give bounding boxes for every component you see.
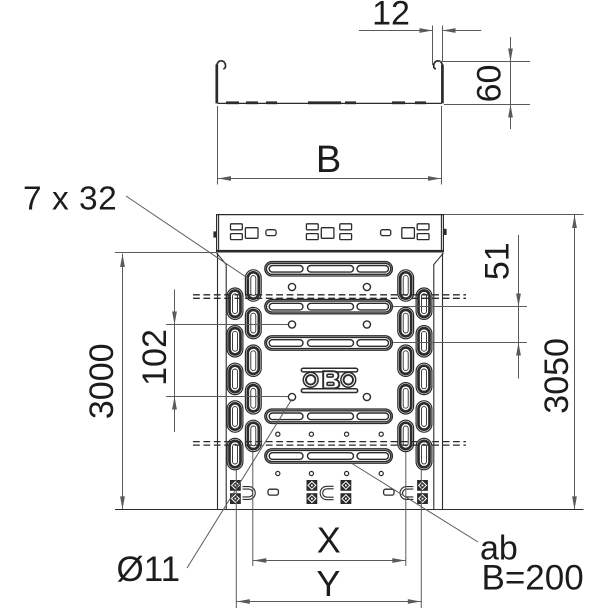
right flange inner slot 3 bbox=[398, 345, 414, 376]
dimension B left arrow bbox=[218, 176, 231, 181]
coupler strip left inner line bbox=[218, 215, 220, 253]
dimension 60 bottom arrow bbox=[508, 105, 513, 118]
coupler pair tabs at x=230 bbox=[231, 224, 243, 230]
svg-text:7 x 32: 7 x 32 bbox=[23, 181, 117, 218]
dimension 102 line bbox=[174, 290, 176, 433]
lower break dashed lines bbox=[193, 441, 466, 443]
Ø11 hole middle left bbox=[288, 321, 295, 328]
tray right outer edge bbox=[442, 253, 444, 510]
right flange outer slot 3 bbox=[416, 363, 432, 394]
dimension X left arrow bbox=[253, 558, 266, 563]
coupler square hole at x=245 bbox=[245, 228, 258, 239]
section left wall rolled lip bbox=[217, 61, 226, 69]
press tab center-right lower bbox=[341, 493, 352, 504]
right flange outer slot 2 bbox=[416, 326, 432, 357]
left flange inner slot 3 bbox=[245, 345, 261, 376]
dimension 12 right arrow bbox=[443, 28, 456, 33]
svg-text:51: 51 bbox=[478, 242, 516, 280]
coupler square hole at x=321 bbox=[321, 228, 334, 239]
left flange inner slot 4 bbox=[245, 383, 261, 414]
tray left fold line bbox=[225, 264, 227, 510]
dimension 3000 tick top bbox=[115, 252, 217, 254]
left flange inner slot 5 bbox=[245, 420, 261, 451]
dimension Y right arrow bbox=[408, 599, 421, 604]
dimension 3050 top arrow bbox=[572, 215, 577, 228]
floor slot row 3 bbox=[265, 336, 393, 350]
label Ø11 leader bbox=[187, 399, 292, 568]
floor slot row 4 bbox=[265, 409, 393, 423]
right flange outer slot 1 bbox=[416, 288, 432, 319]
dimension 102 bottom arrow bbox=[172, 397, 177, 410]
dimension 3050 bottom arrow bbox=[572, 496, 577, 509]
right small end slot bbox=[384, 489, 394, 495]
dimension X right arrow bbox=[392, 558, 405, 563]
upper break dashed lines bbox=[193, 294, 466, 296]
Ø11 hole lower right bbox=[363, 393, 370, 400]
dimension 60 line bbox=[510, 37, 512, 129]
Ø11 hole middle right bbox=[363, 321, 370, 328]
small hole x=347 y=474 bbox=[345, 471, 349, 475]
left flange outer slot 5 bbox=[227, 438, 243, 469]
coupler small slot at x=266 bbox=[266, 230, 276, 236]
left flange outer slot 1 bbox=[227, 288, 243, 319]
svg-text:102: 102 bbox=[136, 329, 174, 386]
press tab left upper bbox=[230, 480, 241, 491]
press tab center-left lower bbox=[307, 493, 318, 504]
dimension Y extension lines bbox=[235, 470, 237, 608]
section left side wall bbox=[215, 65, 218, 104]
right flange outer slot 5 bbox=[416, 438, 432, 469]
dimension 3050 tick top bbox=[444, 214, 584, 216]
dimension 12 extension lines bbox=[432, 26, 434, 66]
center C bracket tab bbox=[321, 488, 333, 499]
dimension 51 top arrow bbox=[516, 294, 521, 307]
tray bottom edge / dimension base line bbox=[115, 509, 584, 511]
dimension 60 extension lines bbox=[438, 61, 530, 63]
dimension 12 left arrow bbox=[420, 28, 433, 33]
small hole x=347 y=434 bbox=[345, 432, 349, 436]
dimension B right arrow bbox=[428, 176, 441, 181]
coupler small slot at x=381 bbox=[381, 230, 391, 236]
tray right corner step bbox=[434, 253, 444, 265]
right flange outer slot 4 bbox=[416, 401, 432, 432]
press tab right lower bbox=[417, 493, 428, 504]
small hole x=278 y=434 bbox=[276, 432, 280, 436]
section right side wall bbox=[441, 65, 444, 104]
tray left outer edge bbox=[217, 253, 219, 510]
svg-text:3000: 3000 bbox=[83, 343, 121, 419]
svg-text:B: B bbox=[316, 139, 341, 181]
right flange inner slot 2 bbox=[398, 307, 414, 338]
left flange outer slot 4 bbox=[227, 401, 243, 432]
left flange inner slot 1 bbox=[245, 270, 261, 301]
floor slot row 1 bbox=[265, 262, 393, 276]
svg-text:X: X bbox=[317, 520, 341, 561]
dimension 60 top arrow bbox=[508, 49, 513, 62]
Ø11 hole upper left bbox=[288, 283, 295, 290]
dimension Y left arrow bbox=[237, 599, 250, 604]
label 7 x 32 leader bbox=[126, 196, 249, 279]
section right wall rolled lip bbox=[434, 61, 443, 69]
dimension 3000 top arrow bbox=[120, 254, 125, 267]
dimension B line bbox=[218, 178, 442, 180]
dimension Y line bbox=[236, 601, 421, 603]
left flange outer slot 2 bbox=[227, 326, 243, 357]
coupler strip right inner line bbox=[440, 215, 442, 253]
coupler pair tabs at x=306 bbox=[306, 224, 318, 230]
svg-text:B=200: B=200 bbox=[482, 559, 584, 598]
dimension 3050 line bbox=[574, 215, 576, 509]
tray right fold line bbox=[433, 264, 435, 510]
svg-text:3050: 3050 bbox=[538, 338, 576, 414]
tray left corner step bbox=[217, 253, 227, 265]
svg-text:Ø11: Ø11 bbox=[117, 550, 181, 589]
floor slot row 5 bbox=[265, 449, 393, 463]
dimension 51 line bbox=[518, 235, 520, 379]
right flange inner slot 1 bbox=[398, 270, 414, 301]
Ø11 hole upper right bbox=[363, 283, 370, 290]
coupler strip right edge tick bbox=[443, 229, 446, 235]
left small end slot bbox=[268, 489, 278, 495]
dimension X line bbox=[253, 560, 406, 562]
dimension 3000 bottom arrow bbox=[120, 496, 125, 509]
Ø11 hole lower left bbox=[288, 393, 295, 400]
coupler strip bottom thick edge bbox=[217, 250, 444, 253]
small hole x=311 y=434 bbox=[309, 432, 313, 436]
right C bracket tab bbox=[401, 488, 413, 498]
dimension X extension lines bbox=[252, 452, 254, 566]
section bottom perforation dashes bbox=[226, 101, 239, 104]
press tab right upper bbox=[417, 480, 428, 491]
dimension 51 bottom arrow bbox=[516, 343, 521, 356]
OBO logo embossing bbox=[301, 368, 357, 392]
dimension 3000 line bbox=[122, 254, 124, 510]
coupler strip left edge tick bbox=[213, 231, 216, 237]
left flange outer slot 3 bbox=[227, 363, 243, 394]
coupler strip outline bbox=[217, 215, 444, 253]
svg-text:60: 60 bbox=[471, 65, 509, 103]
coupler pair tabs at x=417 bbox=[417, 224, 429, 230]
floor slot row 2 bbox=[265, 299, 393, 313]
left C bracket tab bbox=[243, 488, 254, 498]
press tab center-left upper bbox=[307, 480, 318, 491]
small hole x=311 y=474 bbox=[309, 471, 313, 475]
label ab leader bbox=[352, 464, 478, 543]
small hole x=381 y=474 bbox=[379, 471, 383, 475]
press tab center-right upper bbox=[341, 480, 352, 491]
svg-text:12: 12 bbox=[372, 0, 410, 33]
svg-text:Y: Y bbox=[316, 563, 340, 604]
coupler square hole at x=402 bbox=[402, 228, 415, 239]
right flange inner slot 5 bbox=[398, 420, 414, 451]
dimension 12 lines bbox=[359, 30, 432, 32]
small hole x=278 y=474 bbox=[276, 471, 280, 475]
left flange inner slot 2 bbox=[245, 307, 261, 338]
small hole x=381 y=434 bbox=[379, 432, 383, 436]
coupler pair tabs at x=340 bbox=[340, 224, 352, 230]
right flange inner slot 4 bbox=[398, 383, 414, 414]
dimension 51 extension lines bbox=[393, 306, 527, 308]
dimension 102 extension lines bbox=[166, 324, 288, 326]
dimension 102 top arrow bbox=[172, 312, 177, 325]
dimension B extension lines bbox=[217, 106, 219, 185]
press tab left lower bbox=[230, 493, 241, 504]
section tray bottom line bbox=[218, 102, 442, 104]
